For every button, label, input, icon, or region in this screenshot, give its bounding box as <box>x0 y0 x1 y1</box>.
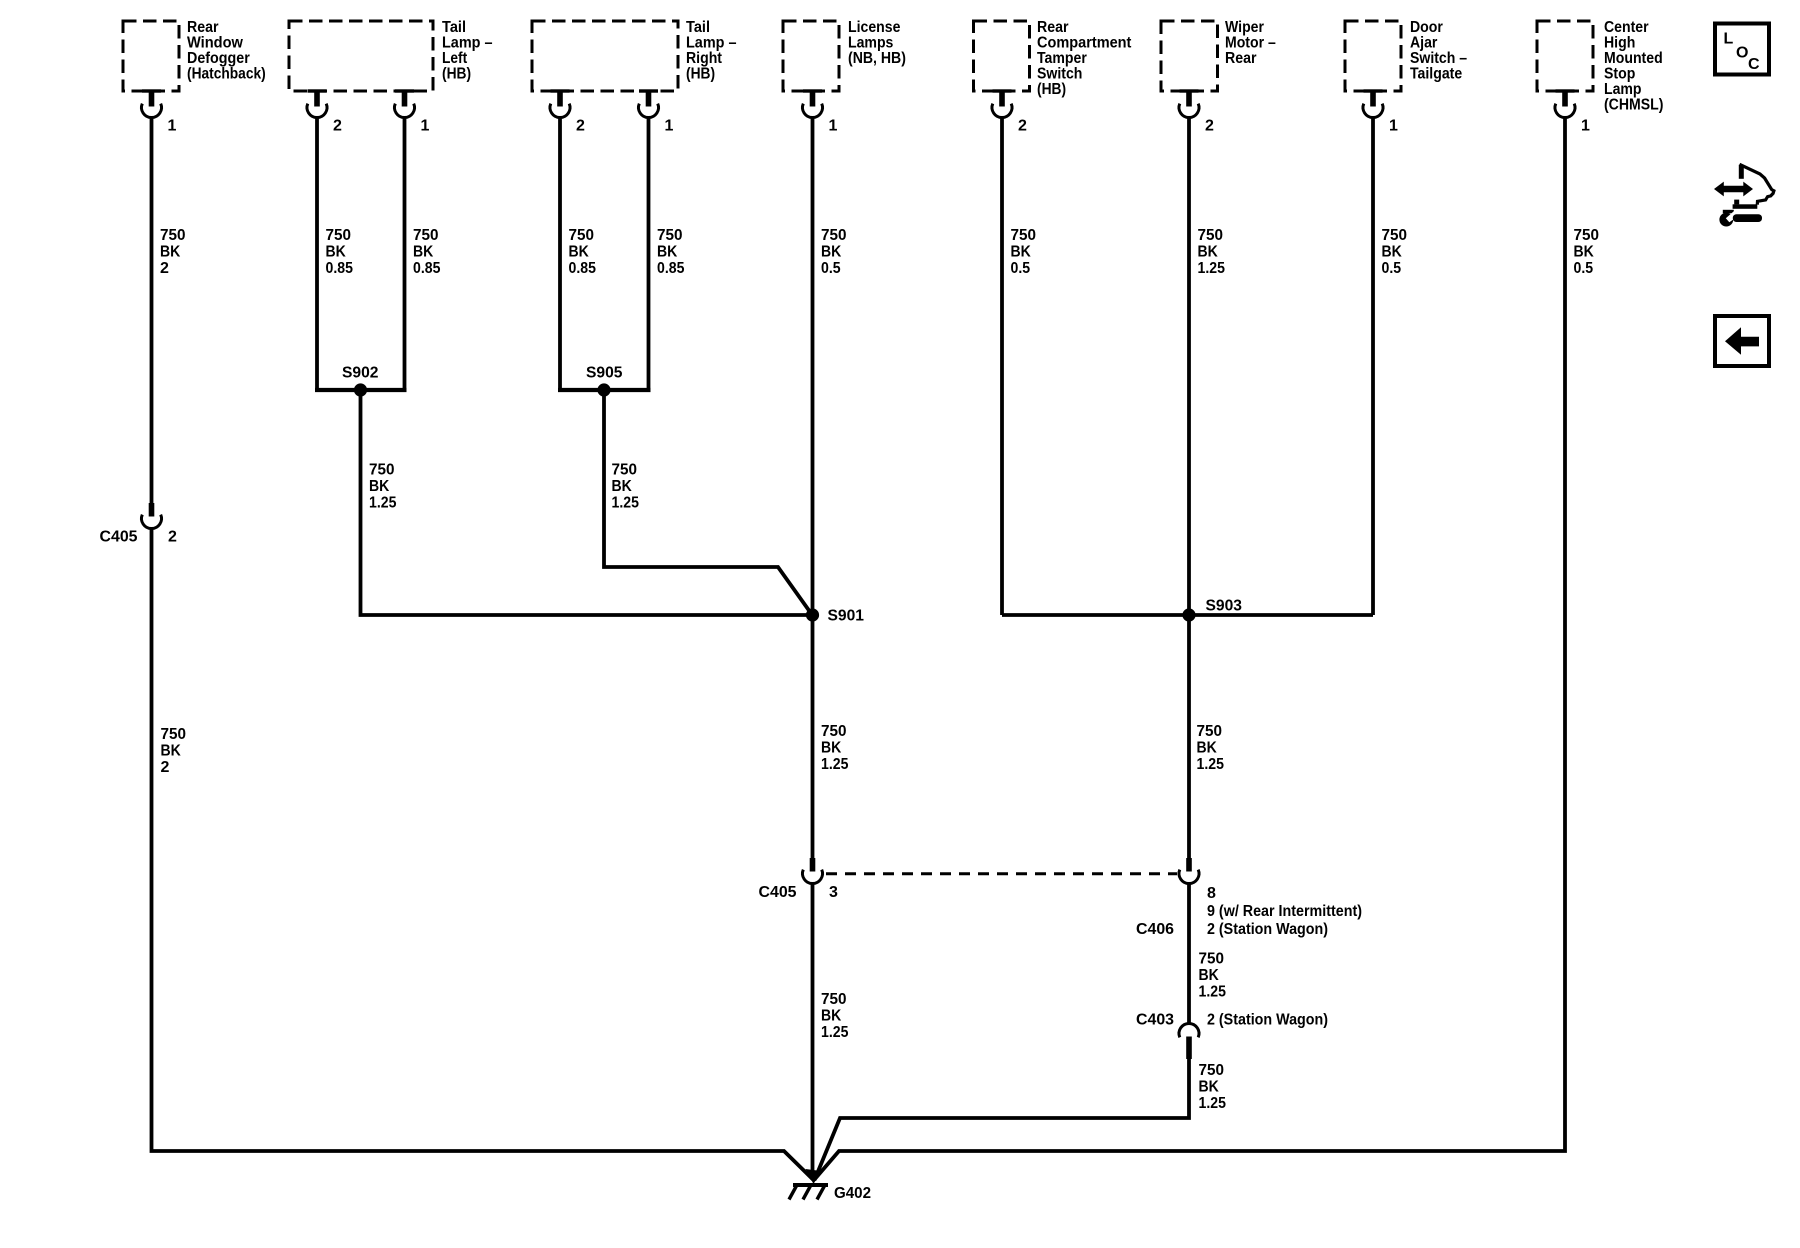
connector box: License Lamps <box>783 21 839 91</box>
splice bar S903 <box>1002 613 1373 617</box>
svg-text:L: L <box>1724 31 1734 48</box>
svg-text:2: 2 <box>333 118 342 135</box>
splice bar S902 <box>315 388 407 392</box>
splice bar S905 <box>558 388 651 392</box>
back arrow legend box <box>1715 316 1769 366</box>
wire 750 BK 2 defogger lower to ground <box>152 529 814 1180</box>
pin 1 Tail Lamp Right <box>639 89 674 134</box>
LOC legend box <box>1715 24 1769 75</box>
vehicle service icon: wrench <box>1719 213 1733 227</box>
back arrow <box>1725 327 1759 355</box>
pin 1 License Lamps <box>803 89 838 134</box>
svg-text:1: 1 <box>1581 118 1590 135</box>
wire S905 to S901 <box>604 390 812 614</box>
junction S902 <box>354 383 367 396</box>
pin 1 Rear Window Defogger <box>142 89 177 134</box>
connector C405 pin 3 <box>803 858 823 884</box>
svg-text:1: 1 <box>665 118 674 135</box>
connector C405 pin 2 <box>142 503 162 529</box>
svg-text:1: 1 <box>168 118 177 135</box>
svg-text:C: C <box>1748 56 1760 73</box>
junction S903 <box>1182 608 1195 621</box>
connector box: Tail Lamp Left <box>289 21 433 91</box>
junction S901 <box>806 608 819 621</box>
ground G402 arrow <box>806 1169 822 1184</box>
svg-text:2 (Station Wagon): 2 (Station Wagon) <box>1207 1012 1328 1029</box>
wire rear compartment tamper switch <box>1000 117 1004 616</box>
svg-text:3: 3 <box>829 884 838 901</box>
pin 1 Door Ajar Switch <box>1363 89 1398 134</box>
svg-text:S901: S901 <box>828 608 865 625</box>
wire tail lamp right pin2 <box>558 117 562 391</box>
dashed connector line C405 <box>826 872 1177 875</box>
svg-text:S905: S905 <box>586 365 623 382</box>
svg-text:C403: C403 <box>1136 1012 1174 1029</box>
connector box: Tail Lamp Right <box>532 21 678 91</box>
pin 2 Tail Lamp Left <box>307 89 342 134</box>
svg-text:C405: C405 <box>759 884 797 901</box>
pin 1 CHMSL <box>1555 89 1590 134</box>
connector box: CHMSL <box>1537 21 1593 91</box>
connector box: Door Ajar Switch Tailgate <box>1345 21 1401 91</box>
svg-text:1: 1 <box>1389 118 1398 135</box>
pin 2 Rear Compartment Tamper Switch <box>992 89 1027 134</box>
vehicle service icon: car outline <box>1739 165 1744 179</box>
pin 2 Wiper Motor Rear <box>1179 89 1214 134</box>
connector C405 pin 8 <box>1179 858 1199 884</box>
svg-text:C405: C405 <box>100 529 138 546</box>
svg-text:2: 2 <box>1018 118 1027 135</box>
wire 750 BK 2 defogger upper <box>150 117 154 504</box>
svg-text:O: O <box>1736 45 1748 62</box>
svg-text:1: 1 <box>829 118 838 135</box>
vehicle service icon: double arrow <box>1714 164 1774 226</box>
wire license lamps down <box>811 117 815 859</box>
ground G402 hatch strokes <box>789 1184 826 1200</box>
wire tail lamp left pin2 <box>315 117 319 391</box>
wire CHMSL to ground <box>814 117 1565 1181</box>
wire tail lamp right pin1 <box>647 117 651 391</box>
wire S902 to S901 <box>361 390 811 615</box>
svg-text:2: 2 <box>168 529 177 546</box>
connector box: Rear Compartment Tamper Switch <box>974 21 1030 91</box>
svg-text:S902: S902 <box>342 365 379 382</box>
pin 1 Tail Lamp Left <box>395 89 430 134</box>
svg-text:G402: G402 <box>834 1185 871 1202</box>
connector box: Wiper Motor Rear <box>1161 21 1218 91</box>
svg-text:2: 2 <box>1205 118 1214 135</box>
wire door ajar switch <box>1371 117 1375 616</box>
wire license to ground <box>811 885 815 1181</box>
junction S905 <box>597 383 610 396</box>
wire wiper motor down <box>1187 117 1191 859</box>
wire C406 to C403 <box>1187 885 1191 1024</box>
svg-text:2: 2 <box>576 118 585 135</box>
svg-text:S903: S903 <box>1206 598 1243 615</box>
svg-text:1: 1 <box>421 118 430 135</box>
svg-text:C406: C406 <box>1136 921 1174 938</box>
pin 2 Tail Lamp Right <box>550 89 585 134</box>
wire tail lamp left pin1 <box>403 117 407 391</box>
wire C403 to ground <box>815 1058 1190 1180</box>
connector C403 <box>1179 1023 1199 1059</box>
connector box: Rear Window Defogger <box>123 21 179 91</box>
ground G402 bar <box>793 1183 828 1187</box>
